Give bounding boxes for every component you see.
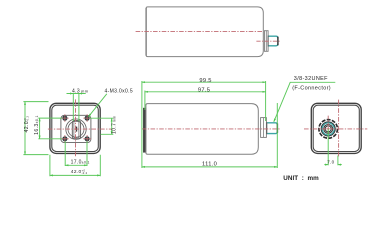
dim 17.0 line xyxy=(65,164,87,166)
back view connector center cross xyxy=(326,127,331,132)
dim 4.3 ext lines xyxy=(73,94,79,122)
front view lens inner circle xyxy=(68,121,84,137)
top view connector flange xyxy=(264,31,268,52)
label underline xyxy=(290,81,335,83)
back view connector ring 2 xyxy=(324,124,333,133)
dim ext line right (111.0) xyxy=(276,103,278,168)
dim ext line right (99.5/97.5) xyxy=(265,81,267,121)
dim text 42.0 left xyxy=(23,115,118,135)
dim 97.5 line xyxy=(145,91,266,93)
back view vertical centerline xyxy=(338,100,340,158)
front view vertical centerline xyxy=(75,99,77,157)
leader 4-M3.0x0.5 xyxy=(88,94,106,117)
back view thread circle (dashed) xyxy=(319,120,338,139)
top view connector barrel end caps xyxy=(267,36,269,47)
dim 17.0 ext lines xyxy=(65,141,87,166)
dim 111.0 line xyxy=(142,166,277,168)
front view center slot mid mark xyxy=(76,127,78,132)
dim 42.0 left ext lines xyxy=(23,102,48,155)
front view screw hole bottom-left xyxy=(63,137,67,141)
top view connector flange mid line xyxy=(265,31,267,52)
svg-text:7.0: 7.0 xyxy=(327,160,334,165)
front view inner square xyxy=(52,105,99,151)
front view outer square xyxy=(50,103,100,153)
top view connector centerline xyxy=(256,40,281,42)
svg-text:99.5: 99.5 xyxy=(199,78,211,84)
svg-text:42.0: 42.0 xyxy=(71,169,82,175)
dim ext line left outer (99.5/111.0) xyxy=(141,81,143,168)
dim 7.0 ext lines xyxy=(324,129,342,165)
front view screw hole top-right xyxy=(85,116,89,120)
back view connector ring 3 xyxy=(325,126,331,132)
svg-text:111.0: 111.0 xyxy=(202,161,217,167)
top view body outline xyxy=(146,7,263,57)
svg-text:97.5: 97.5 xyxy=(198,88,210,94)
side view connector end caps xyxy=(266,122,268,134)
side view body xyxy=(146,104,258,155)
leader lines F-connector xyxy=(274,82,290,122)
dim 4.3 arrows lines xyxy=(67,93,86,95)
front view screw hole top-left xyxy=(63,116,89,141)
dim 16.3 ext lines xyxy=(38,118,62,139)
back view outer square xyxy=(311,103,361,153)
dim 42.0 left line xyxy=(24,102,26,155)
top view left edge accent xyxy=(145,8,147,56)
svg-text:3/8-32UNEF: 3/8-32UNEF xyxy=(294,76,328,82)
svg-text:10.7mm: 10.7mm xyxy=(112,116,118,134)
svg-text:42.0: 42.0 xyxy=(24,121,30,133)
front view center slot inner xyxy=(74,121,79,137)
side view centerline xyxy=(142,128,280,130)
dim 10.7 line xyxy=(111,118,113,134)
svg-text:(F-Connector): (F-Connector) xyxy=(292,85,331,91)
back view inner square xyxy=(313,105,359,151)
side view connector barrel xyxy=(267,123,277,134)
side view connector flange mid line xyxy=(262,118,264,138)
svg-text:-0.2: -0.2 xyxy=(26,116,30,122)
dim ext line left inner (97.5) xyxy=(144,91,146,111)
dim 10.7 ext lines xyxy=(90,118,114,134)
svg-text:-0.2: -0.2 xyxy=(82,171,88,175)
front view horizontal centerline xyxy=(48,128,113,130)
top view body centerline xyxy=(136,31,264,33)
back view connector vertical centerline xyxy=(327,116,329,129)
back view horizontal centerline xyxy=(304,128,367,130)
back view connector teal circle xyxy=(322,123,334,135)
side view front plate xyxy=(143,108,146,152)
svg-text:UNIT : mm: UNIT : mm xyxy=(283,175,319,182)
dim 99.5 line xyxy=(142,81,266,83)
front view flange plate xyxy=(61,115,91,142)
dim 42.0 bottom line xyxy=(50,174,100,176)
dim 7.0 arrows xyxy=(324,164,328,166)
side view connector flange xyxy=(261,118,267,138)
dim 42.0 bottom ext lines xyxy=(50,155,100,177)
back view connector outer ring xyxy=(321,122,335,136)
front view screw hole bottom-right xyxy=(85,137,89,141)
front view center slot outer xyxy=(72,120,80,138)
dim 16.3 line xyxy=(39,118,41,139)
back view connector center pin xyxy=(327,128,329,130)
svg-text:4-M3.0x0.5: 4-M3.0x0.5 xyxy=(105,89,134,95)
front view dimensions xyxy=(23,94,113,177)
top view connector barrel xyxy=(269,36,278,46)
side view dimensions xyxy=(142,81,335,168)
front view lens outer circle xyxy=(66,119,86,139)
front view hole cross marks xyxy=(61,114,91,142)
